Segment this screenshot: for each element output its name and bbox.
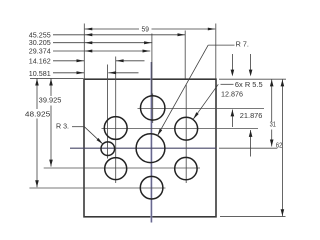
dim 30.205 xyxy=(53,42,152,44)
svg-text:10.581: 10.581 xyxy=(29,70,51,78)
extension line: bottom hole level y188 xyxy=(29,187,165,189)
svg-text:45.255: 45.255 xyxy=(29,31,51,39)
svg-text:R 3.: R 3. xyxy=(56,123,69,131)
dim 29.374 xyxy=(53,50,150,52)
hole lower-right R5.5 xyxy=(175,157,197,179)
svg-text:59: 59 xyxy=(142,25,149,33)
centerline: top hole vertical xyxy=(152,94,154,124)
svg-text:62: 62 xyxy=(276,142,282,150)
extension line: bottom edge rightward xyxy=(220,216,286,218)
hole center R7 xyxy=(136,134,165,163)
hole small R3 xyxy=(101,142,115,156)
hole upper-left R5.5 xyxy=(104,117,127,140)
dim 10.581 xyxy=(53,72,84,74)
extension line: UL/UR level y128.5 xyxy=(102,128,259,130)
leader R7 xyxy=(208,44,234,46)
dim 21.876 xyxy=(250,54,252,70)
hole bottom R5.5 xyxy=(140,176,163,199)
svg-text:14.162: 14.162 xyxy=(29,57,51,65)
hole lower-left R5.5 xyxy=(105,158,127,180)
extension line: LL/LR level y168 xyxy=(44,167,200,169)
extension line: top hole column x151.9 xyxy=(151,34,153,96)
svg-text:30.205: 30.205 xyxy=(29,39,51,47)
svg-text:R 7.: R 7. xyxy=(236,41,249,49)
extension line: plate right edge up xyxy=(215,24,217,79)
plate outline xyxy=(84,79,216,217)
dim 14.162 xyxy=(53,60,84,62)
svg-text:48.925: 48.925 xyxy=(25,110,50,118)
svg-text:6x R 5.5: 6x R 5.5 xyxy=(235,81,263,89)
dim 59 xyxy=(85,28,139,30)
centerline horizontal (blue) xyxy=(70,147,217,149)
svg-text:31: 31 xyxy=(270,120,276,128)
dim 31 xyxy=(271,79,273,121)
centerline vertical (blue) xyxy=(150,62,152,223)
extension line: center level rightward y148.2 xyxy=(219,147,277,149)
leader 6x R5.5 xyxy=(221,83,234,85)
dim 45.255 xyxy=(53,34,185,36)
svg-text:12.876: 12.876 xyxy=(221,90,243,98)
extension line: top hole level rightward y108.2 xyxy=(138,108,265,110)
hole upper-right R5.5 xyxy=(175,117,198,140)
extension line: UL/LL holes column x115.7 xyxy=(115,57,117,184)
svg-text:29.374: 29.374 xyxy=(29,48,51,56)
extension line: top edge leftward xyxy=(30,77,83,79)
hole top R5.5 xyxy=(141,96,165,120)
centerline: UR/LR holes column x186.05 xyxy=(185,85,187,183)
svg-text:21.876: 21.876 xyxy=(240,112,263,120)
extension line: R3 hole column x107.5 xyxy=(107,65,109,159)
extension line: right holes column x185.2 xyxy=(184,31,186,79)
dim 48.925 xyxy=(36,79,38,110)
dim 12.876 xyxy=(231,54,233,70)
dim 39.925 xyxy=(50,79,52,97)
dim 62 xyxy=(281,79,283,216)
extension line: top edge rightward xyxy=(219,78,286,80)
extension line: plate left edge up xyxy=(83,24,85,79)
svg-text:39.925: 39.925 xyxy=(39,97,62,105)
leader R3 xyxy=(72,126,84,128)
